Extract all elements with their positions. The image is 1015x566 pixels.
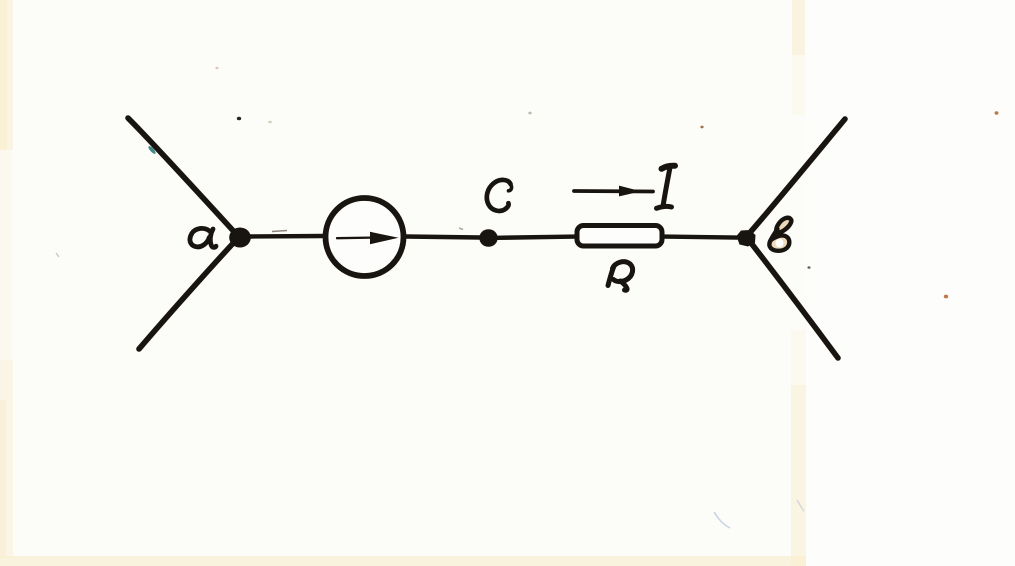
brown speck upper middle	[700, 126, 703, 129]
label c top curl	[509, 184, 512, 191]
label I	[657, 166, 676, 209]
wire upper-right diagonal from node b	[747, 119, 845, 236]
current direction arrow I above resistor	[574, 189, 653, 193]
wire lower-left diagonal from node a	[139, 238, 238, 349]
faint blue scribble bottom right	[714, 512, 730, 528]
small dark speck above node a	[237, 117, 241, 121]
right paper fold cream strip	[792, 0, 805, 55]
orange speck top right	[995, 111, 999, 114]
faint pink speck	[215, 67, 218, 69]
label R	[608, 262, 633, 291]
wire current source to node c	[405, 237, 480, 238]
faint tick near node c	[459, 228, 463, 230]
left cream edge band	[0, 0, 13, 150]
current source arrow	[337, 236, 371, 239]
current source circle U1	[326, 198, 404, 276]
bottom cream edge band	[0, 556, 806, 566]
dark speck right of node b	[807, 266, 810, 269]
wire node c to resistor	[497, 237, 576, 238]
resistor R body	[577, 226, 662, 247]
teal speck on upper-left wire	[147, 145, 156, 155]
label a	[190, 228, 216, 247]
faint gray tick left	[56, 253, 59, 257]
wire lower-right diagonal from node b	[748, 239, 838, 358]
wire resistor to node b	[664, 237, 737, 238]
wire upper-left diagonal into node a	[128, 118, 238, 236]
orange speck right	[944, 295, 948, 299]
node a junction dot	[229, 228, 251, 248]
faint speck	[268, 121, 272, 123]
label b	[769, 218, 791, 251]
label c	[487, 180, 511, 211]
node c junction dot	[479, 229, 497, 247]
faint tick above wire a-circle	[272, 231, 287, 232]
node b junction dot	[737, 230, 756, 247]
wire node a to current source	[250, 234, 324, 239]
faint speck	[528, 112, 531, 115]
